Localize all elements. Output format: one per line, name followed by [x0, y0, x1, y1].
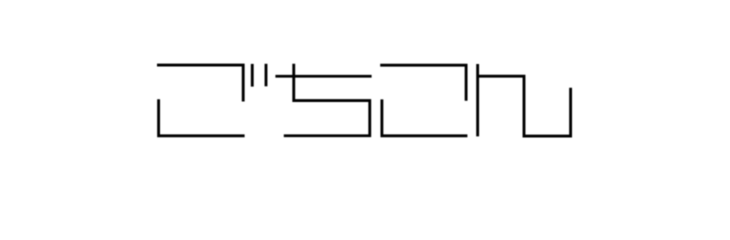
glyph GO: left vertical and bottom bar — [159, 99, 245, 136]
glyph KO: left vertical and bottom bar — [382, 99, 468, 135]
glyph CHI: crossbar — [275, 75, 371, 78]
glyph N: shoulder, middle vertical, bottom bar, right upstroke — [478, 76, 571, 136]
glyph GO: top bar with right hook — [157, 65, 243, 101]
glyph N: long left vertical — [476, 64, 479, 136]
glyph GO: dakuten tick 2 — [265, 64, 268, 87]
glyph GO: dakuten tick 1 — [251, 64, 254, 87]
glyph KO: top bar with right hook — [380, 65, 466, 101]
glyph CHI: main stroke (vertical, shoulder, right side, bottom hook) — [284, 64, 370, 136]
